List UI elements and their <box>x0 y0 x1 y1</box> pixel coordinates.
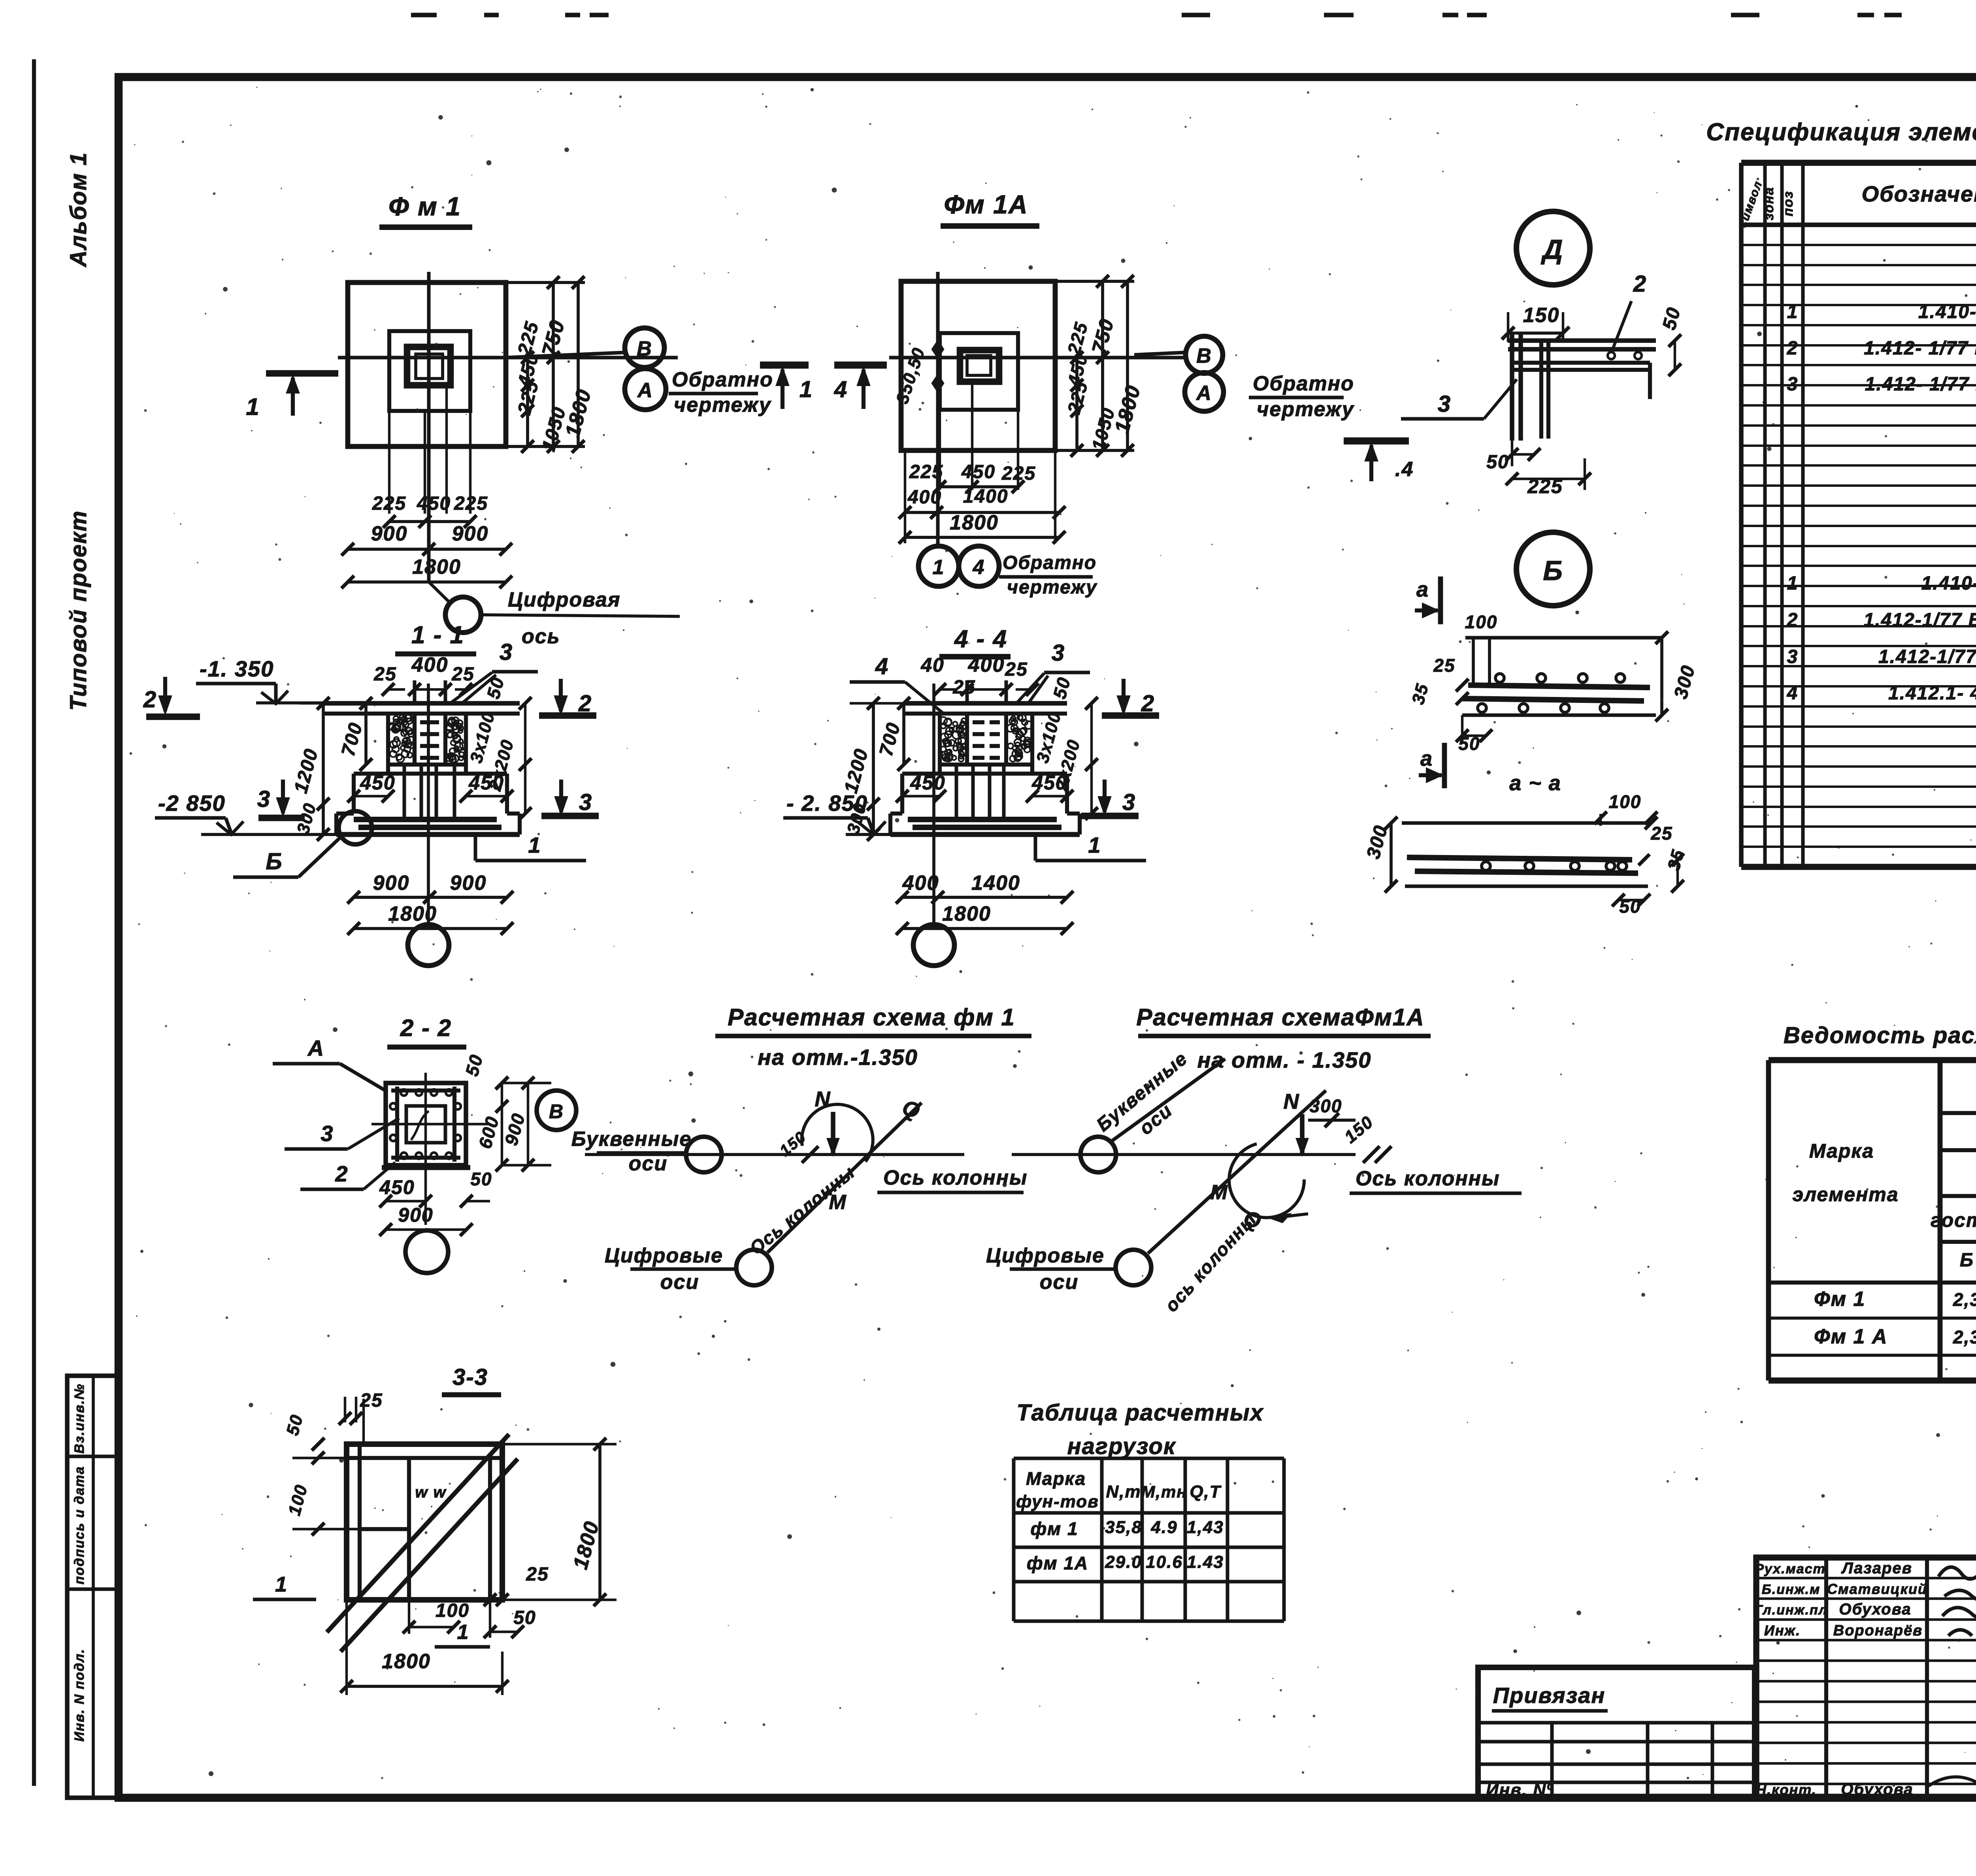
svg-text:4: 4 <box>973 556 985 579</box>
svg-text:Б: Б <box>1543 555 1563 586</box>
svg-text:чертежу: чертежу <box>1007 577 1097 598</box>
svg-text:Обухова: Обухова <box>1841 1781 1913 1798</box>
svg-text:2,3: 2,3 <box>1953 1327 1976 1347</box>
svg-text:Цифровая: Цифровая <box>508 588 620 611</box>
svg-text:Альбом 1: Альбом 1 <box>66 152 91 267</box>
svg-text:Фм 1: Фм 1 <box>1814 1288 1865 1311</box>
svg-text:-1. 350: -1. 350 <box>200 656 274 681</box>
svg-text:150: 150 <box>1523 304 1560 327</box>
svg-text:Обухова: Обухова <box>1839 1601 1911 1618</box>
svg-text:1: 1 <box>275 1573 288 1596</box>
svg-text:.4: .4 <box>1395 458 1414 481</box>
svg-text:1: 1 <box>1088 833 1101 857</box>
svg-text:1.412-1/77В3Л.5: 1.412-1/77В3Л.5 <box>1878 646 1976 667</box>
svg-text:10.6: 10.6 <box>1146 1552 1183 1572</box>
svg-text:зона: зона <box>1761 186 1776 220</box>
svg-text:Ось колонны: Ось колонны <box>1356 1167 1500 1190</box>
svg-text:3: 3 <box>1438 391 1451 417</box>
svg-text:1: 1 <box>1787 301 1799 322</box>
svg-text:N,m: N,m <box>1106 1482 1141 1501</box>
svg-text:чертежу: чертежу <box>674 394 772 416</box>
svg-text:1,43: 1,43 <box>1187 1518 1224 1537</box>
svg-text:Лазарев: Лазарев <box>1841 1560 1912 1577</box>
svg-text:2: 2 <box>143 687 157 712</box>
svg-text:900: 900 <box>501 1111 529 1147</box>
svg-text:450: 450 <box>910 772 945 794</box>
svg-text:1.410- 2: 1.410- 2 <box>1918 301 1976 322</box>
svg-text:900: 900 <box>373 872 410 895</box>
svg-text:1800: 1800 <box>561 386 596 439</box>
svg-text:подпись и дата: подпись и дата <box>72 1466 87 1584</box>
svg-text:35,8: 35,8 <box>1105 1518 1142 1537</box>
svg-text:300: 300 <box>1670 663 1699 701</box>
svg-text:450: 450 <box>417 493 451 514</box>
svg-text:а: а <box>1416 578 1429 601</box>
svg-text:4.9: 4.9 <box>1150 1518 1177 1537</box>
svg-text:50: 50 <box>1486 452 1509 473</box>
svg-text:450: 450 <box>360 772 395 794</box>
svg-text:А: А <box>307 1036 324 1060</box>
svg-text:3: 3 <box>1787 374 1799 395</box>
svg-text:50: 50 <box>1049 674 1075 701</box>
svg-text:оси: оси <box>629 1152 667 1175</box>
svg-text:Привязан: Привязан <box>1493 1683 1605 1708</box>
svg-text:1.412- 1/77 В.3 Л.Б: 1.412- 1/77 В.3 Л.Б <box>1865 374 1976 395</box>
svg-text:Д: Д <box>1541 234 1564 265</box>
svg-text:1400: 1400 <box>963 486 1009 507</box>
svg-text:50: 50 <box>461 1052 487 1078</box>
svg-text:элемента: элемента <box>1792 1183 1899 1205</box>
svg-text:900: 900 <box>452 522 489 545</box>
svg-text:на отм.-1.350: на отм.-1.350 <box>758 1045 918 1070</box>
svg-text:1800: 1800 <box>942 902 991 925</box>
svg-text:А: А <box>637 379 653 402</box>
svg-text:2: 2 <box>1633 271 1647 297</box>
svg-text:600: 600 <box>475 1114 503 1151</box>
svg-text:100: 100 <box>285 1482 311 1518</box>
svg-text:300: 300 <box>1363 823 1391 861</box>
svg-text:750: 750 <box>1088 316 1118 356</box>
svg-text:4: 4 <box>875 654 889 679</box>
svg-text:50: 50 <box>470 1169 492 1189</box>
svg-text:25: 25 <box>451 664 474 685</box>
svg-text:29.0: 29.0 <box>1105 1552 1142 1572</box>
svg-text:Спецификация элементов монол: Спецификация элементов монолитных фундам… <box>1706 119 1976 146</box>
svg-text:700: 700 <box>875 720 904 759</box>
svg-text:350,50: 350,50 <box>892 345 929 406</box>
svg-text:225: 225 <box>1001 463 1036 484</box>
svg-text:Инв. N подл.: Инв. N подл. <box>72 1648 87 1742</box>
svg-text:Фм 1А: Фм 1А <box>944 190 1028 219</box>
svg-text:1: 1 <box>246 394 260 420</box>
svg-text:2,3: 2,3 <box>1953 1289 1976 1310</box>
svg-text:Марка: Марка <box>1809 1140 1874 1162</box>
svg-text:1: 1 <box>457 1621 469 1644</box>
svg-text:1.412-1/77 В. 3Л.19: 1.412-1/77 В. 3Л.19 <box>1864 610 1976 631</box>
svg-text:50: 50 <box>483 674 508 701</box>
svg-text:1800: 1800 <box>388 902 437 925</box>
svg-text:Обозначение: Обозначение <box>1862 181 1976 206</box>
svg-text:4: 4 <box>1787 683 1799 704</box>
svg-text:50: 50 <box>513 1607 536 1628</box>
svg-text:Б: Б <box>266 849 283 874</box>
svg-text:35: 35 <box>1408 681 1432 706</box>
svg-text:Обратно: Обратно <box>672 368 773 391</box>
svg-text:Ф м 1: Ф м 1 <box>388 192 461 221</box>
svg-text:1: 1 <box>799 377 813 402</box>
svg-text:фм 1А: фм 1А <box>1027 1553 1088 1573</box>
svg-text:3: 3 <box>1052 640 1065 666</box>
svg-text:750: 750 <box>538 317 569 359</box>
svg-text:900: 900 <box>398 1204 433 1226</box>
svg-text:2: 2 <box>1141 691 1155 716</box>
svg-text:Цифровые: Цифровые <box>605 1244 723 1267</box>
svg-text:225: 225 <box>1063 320 1092 357</box>
svg-text:М,тн: М,тн <box>1141 1482 1187 1501</box>
svg-text:1800: 1800 <box>382 1650 431 1673</box>
svg-text:Типовой проект: Типовой проект <box>66 510 91 711</box>
svg-text:- 2. 850: - 2. 850 <box>786 791 868 816</box>
svg-text:3: 3 <box>579 789 592 815</box>
svg-text:3: 3 <box>257 786 271 812</box>
svg-text:1 - 1: 1 - 1 <box>411 622 464 649</box>
svg-text:1: 1 <box>933 556 945 579</box>
svg-text:Б: Б <box>1960 1250 1974 1271</box>
svg-text:4: 4 <box>834 377 848 402</box>
svg-text:Воронарёв: Воронарёв <box>1833 1622 1923 1639</box>
svg-text:50: 50 <box>283 1412 307 1437</box>
svg-text:3-3: 3-3 <box>453 1364 488 1390</box>
svg-text:w w: w w <box>415 1484 447 1501</box>
svg-text:100: 100 <box>1609 791 1642 812</box>
svg-text:N: N <box>1284 1090 1300 1113</box>
svg-text:оси: оси <box>1040 1271 1079 1294</box>
svg-text:50: 50 <box>1659 305 1685 332</box>
svg-text:1: 1 <box>528 833 541 857</box>
svg-text:поз: поз <box>1781 191 1796 217</box>
svg-text:3: 3 <box>321 1121 334 1146</box>
svg-text:Расчетная схемаФм1А: Расчетная схемаФм1А <box>1136 1004 1424 1030</box>
svg-text:фун-тов: фун-тов <box>1016 1492 1099 1511</box>
svg-text:Буквенные: Буквенные <box>571 1128 692 1151</box>
svg-text:Инв. Nº: Инв. Nº <box>1486 1780 1554 1800</box>
svg-text:1.410-2: 1.410-2 <box>1921 573 1976 594</box>
svg-text:25: 25 <box>373 664 396 685</box>
svg-text:Q,Т: Q,Т <box>1190 1482 1221 1501</box>
svg-text:Гл.инж.пл: Гл.инж.пл <box>1754 1603 1828 1618</box>
svg-text:450: 450 <box>961 461 996 482</box>
svg-text:2: 2 <box>578 691 592 716</box>
svg-text:25: 25 <box>1650 823 1672 844</box>
svg-text:1800: 1800 <box>412 556 461 578</box>
svg-text:В: В <box>637 337 652 360</box>
svg-text:Таблица расчетных: Таблица расчетных <box>1016 1400 1264 1426</box>
svg-text:Фм 1 А: Фм 1 А <box>1814 1325 1887 1348</box>
svg-text:100: 100 <box>1465 612 1498 632</box>
svg-text:Обратно: Обратно <box>1253 372 1354 395</box>
svg-text:Рух.маст: Рух.маст <box>1755 1561 1826 1577</box>
svg-text:Марка: Марка <box>1026 1468 1086 1489</box>
svg-text:1200: 1200 <box>290 746 322 796</box>
svg-text:1800: 1800 <box>1111 382 1145 435</box>
svg-text:Б.инж.м: Б.инж.м <box>1762 1582 1820 1597</box>
svg-text:1: 1 <box>1787 573 1799 594</box>
svg-text:оси: оси <box>660 1271 699 1294</box>
svg-text:Н.конт.: Н.конт. <box>1756 1782 1817 1798</box>
svg-text:Расчетная схема фм 1: Расчетная схема фм 1 <box>728 1004 1015 1030</box>
svg-text:Инж.: Инж. <box>1764 1622 1801 1639</box>
svg-text:2: 2 <box>335 1161 348 1186</box>
svg-text:Сматвицкий: Сматвицкий <box>1827 1581 1927 1597</box>
svg-text:1.412- 1/77 В...л.19: 1.412- 1/77 В...л.19 <box>1864 338 1976 359</box>
svg-text:гост 5781-82: гост 5781-82 <box>1931 1209 1976 1231</box>
svg-text:1800: 1800 <box>950 511 999 534</box>
svg-text:225: 225 <box>454 493 488 514</box>
svg-text:чертежу: чертежу <box>1257 398 1355 421</box>
svg-text:400: 400 <box>968 654 1005 676</box>
svg-text:ось: ось <box>522 625 560 648</box>
svg-text:225: 225 <box>372 493 406 514</box>
svg-text:4 - 4: 4 - 4 <box>954 625 1007 653</box>
svg-text:450: 450 <box>379 1176 415 1198</box>
svg-text:Цифровые: Цифровые <box>986 1244 1105 1267</box>
svg-text:Вз.инв.№: Вз.инв.№ <box>72 1383 87 1454</box>
svg-text:1.43: 1.43 <box>1187 1552 1224 1572</box>
svg-text:400: 400 <box>902 872 939 895</box>
svg-text:700: 700 <box>338 720 366 759</box>
svg-text:М: М <box>1210 1181 1228 1204</box>
svg-text:а: а <box>1420 747 1433 770</box>
svg-text:400: 400 <box>411 654 449 676</box>
svg-text:1400: 1400 <box>971 872 1020 895</box>
svg-text:-2 850: -2 850 <box>158 791 226 816</box>
svg-text:1.412.1- 4Л.29: 1.412.1- 4Л.29 <box>1888 683 1976 704</box>
svg-text:100: 100 <box>436 1600 469 1621</box>
svg-text:нагрузок: нагрузок <box>1067 1433 1176 1459</box>
svg-text:900: 900 <box>371 522 408 545</box>
svg-text:3: 3 <box>1122 789 1136 815</box>
svg-text:150: 150 <box>1341 1112 1377 1147</box>
svg-text:Обратно: Обратно <box>1003 552 1097 573</box>
svg-text:40: 40 <box>920 654 945 676</box>
svg-text:3: 3 <box>500 639 513 665</box>
svg-text:фм 1: фм 1 <box>1030 1518 1078 1539</box>
svg-text:900: 900 <box>450 872 487 895</box>
svg-text:2 - 2: 2 - 2 <box>400 1015 452 1041</box>
svg-text:25: 25 <box>1433 655 1455 676</box>
svg-text:2: 2 <box>1787 338 1799 359</box>
svg-text:В: В <box>549 1100 564 1123</box>
svg-text:а ~ а: а ~ а <box>1509 771 1561 795</box>
svg-text:Ведомость расхода стали: Ведомость расхода стали на монолитные фу… <box>1784 1023 1976 1048</box>
svg-text:М: М <box>829 1191 847 1214</box>
svg-text:ось колонны: ось колонны <box>1161 1209 1260 1316</box>
svg-text:1200: 1200 <box>841 746 873 796</box>
svg-text:25: 25 <box>526 1564 549 1585</box>
svg-text:3: 3 <box>1787 646 1799 667</box>
svg-text:А: А <box>1195 382 1212 405</box>
svg-text:2: 2 <box>1787 610 1799 631</box>
svg-text:В: В <box>1196 345 1212 367</box>
svg-text:25: 25 <box>1005 659 1028 680</box>
